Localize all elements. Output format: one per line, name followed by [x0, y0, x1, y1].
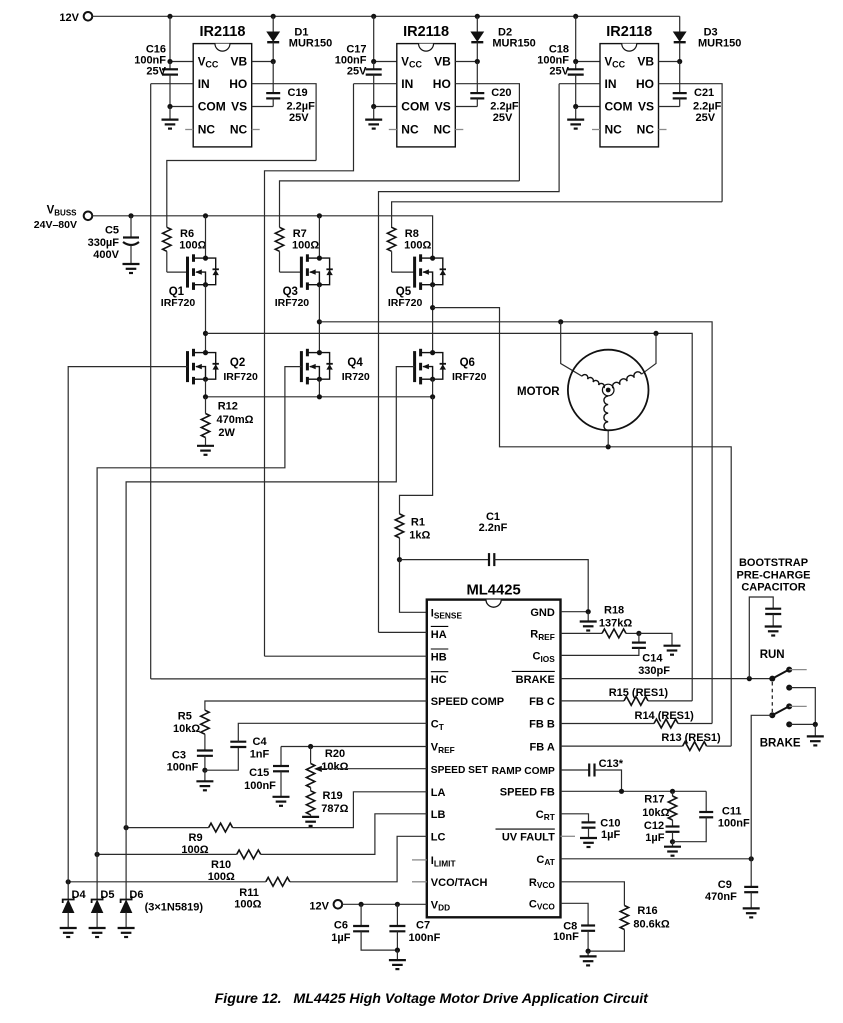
svg-text:FB C: FB C	[529, 696, 555, 708]
capacitor C16	[169, 62, 171, 70]
svg-text:C12: C12	[644, 820, 664, 832]
svg-text:NC: NC	[230, 123, 248, 137]
svg-text:1µF: 1µF	[645, 832, 664, 844]
node VCC junction C18	[573, 59, 578, 64]
svg-text:2W: 2W	[218, 427, 235, 439]
wire LA line	[233, 792, 427, 828]
svg-text:IR2118: IR2118	[403, 24, 449, 40]
svg-text:R5: R5	[178, 710, 192, 722]
svg-text:R15 (RES1): R15 (RES1)	[609, 687, 669, 699]
wire phase A to motor and FBC	[206, 333, 693, 701]
diode D2 MUR150	[476, 16, 478, 32]
node COM junction	[167, 104, 172, 109]
node motor phase C branch	[606, 444, 611, 449]
node phase C tap	[430, 305, 435, 310]
svg-text:25V: 25V	[347, 65, 367, 77]
diode D3 MUR150	[679, 16, 681, 32]
svg-text:2.2µF: 2.2µF	[287, 100, 316, 112]
ground R19	[302, 817, 319, 826]
wire VCC rail drop IC1	[169, 16, 171, 61]
svg-text:COM: COM	[198, 100, 226, 114]
svg-text:C6: C6	[334, 919, 348, 931]
wire Q1 drain	[205, 216, 207, 258]
wire IN input IC2	[354, 83, 397, 85]
node switch ground junction	[813, 722, 818, 727]
svg-text:IRF720: IRF720	[223, 371, 258, 383]
wire Q4 gate bus	[97, 367, 301, 855]
svg-text:VS: VS	[435, 100, 451, 114]
wire phase B column	[318, 285, 320, 353]
wire IN input IC3	[559, 83, 600, 85]
wire GND pin	[561, 611, 589, 613]
svg-text:10kΩ: 10kΩ	[173, 723, 200, 735]
wire COM stub IC1	[170, 106, 193, 108]
wire phase A column	[205, 285, 207, 353]
svg-text:MUR150: MUR150	[492, 37, 535, 49]
svg-text:IN: IN	[605, 77, 617, 91]
node VB junction	[475, 59, 480, 64]
IC U2 IR2118 gate driver	[397, 44, 456, 147]
ground C9	[743, 908, 760, 917]
wire SPEED SET wiper	[320, 768, 427, 770]
svg-text:VB: VB	[231, 55, 248, 69]
svg-text:VB: VB	[637, 55, 654, 69]
svg-text:R6: R6	[180, 228, 194, 240]
node VCC junction C16	[167, 59, 172, 64]
svg-text:VB: VB	[434, 55, 451, 69]
node phase A tap	[203, 331, 208, 336]
transistor Q1	[188, 254, 219, 290]
svg-text:IR2118: IR2118	[606, 24, 652, 40]
svg-text:C14: C14	[642, 652, 663, 664]
svg-text:C7: C7	[416, 919, 430, 931]
svg-text:25V: 25V	[549, 65, 569, 77]
svg-text:C13*: C13*	[599, 758, 624, 770]
wire VBUSS rail	[92, 216, 432, 258]
wire VCO/TACH stub	[412, 881, 427, 883]
ground C10	[580, 838, 597, 847]
capacitor C7 100nF	[396, 904, 398, 926]
svg-text:R12: R12	[218, 400, 238, 412]
node C13 junction	[619, 789, 624, 794]
svg-text:C9: C9	[718, 879, 732, 891]
svg-text:VS: VS	[638, 100, 654, 114]
wire run contact stub	[789, 669, 807, 671]
wire NC stubs IC1	[185, 129, 193, 131]
ground D4	[60, 928, 77, 937]
svg-text:100nF: 100nF	[244, 780, 276, 792]
svg-text:HA: HA	[431, 629, 447, 641]
wire source bus	[206, 396, 433, 398]
node GND junction	[586, 609, 591, 614]
wire contact4 to ground	[789, 723, 815, 725]
svg-text:HO: HO	[229, 77, 247, 91]
svg-text:R1: R1	[411, 516, 425, 528]
svg-text:25V: 25V	[289, 112, 309, 124]
wire UV FAULT stub	[561, 835, 576, 837]
node R20 top junction	[308, 744, 313, 749]
svg-text:C5: C5	[105, 225, 119, 237]
transistor Q6	[415, 349, 446, 385]
diode D4 1N5819	[67, 882, 69, 900]
svg-text:VS: VS	[231, 100, 247, 114]
svg-text:ML4425: ML4425	[466, 583, 520, 599]
resistor R15 RES1	[624, 697, 648, 706]
capacitor C20	[476, 62, 478, 94]
wire FB A line	[561, 745, 683, 747]
svg-text:RAMP COMP: RAMP COMP	[492, 766, 555, 777]
wire IC2 IN to HB bus	[265, 84, 354, 657]
svg-text:C3: C3	[172, 749, 186, 761]
node C7 junction	[395, 902, 400, 907]
svg-text:BRAKE: BRAKE	[760, 738, 801, 750]
wire phase C to motor and FBA	[433, 308, 732, 746]
svg-text:IR720: IR720	[342, 371, 370, 383]
svg-text:137kΩ: 137kΩ	[599, 617, 632, 629]
svg-text:470nF: 470nF	[705, 891, 737, 903]
node C6 junction	[359, 902, 364, 907]
wire COM stub IC3	[576, 106, 600, 108]
capacitor C5 bulk	[130, 216, 132, 238]
node VCC junction C17	[371, 59, 376, 64]
ground C7	[389, 950, 406, 969]
svg-text:FB A: FB A	[530, 741, 555, 753]
wire IC2 HO to R7	[280, 181, 520, 227]
wire IN input IC1	[151, 83, 194, 85]
wire ILIMIT stub	[412, 859, 427, 861]
wire NC stubs IC3	[592, 129, 600, 131]
svg-text:25V: 25V	[146, 65, 166, 77]
svg-text:2.2µF: 2.2µF	[693, 100, 722, 112]
wire contact2 to ground bus	[789, 688, 815, 725]
ground R12	[197, 446, 214, 455]
transistor Q3	[301, 254, 332, 290]
svg-text:SPEED SET: SPEED SET	[431, 765, 489, 776]
wire VREF line	[281, 746, 427, 748]
node Q6 source junction	[430, 394, 435, 399]
svg-text:MOTOR: MOTOR	[517, 386, 560, 398]
svg-text:R10: R10	[211, 859, 231, 871]
svg-text:2.2nF: 2.2nF	[479, 522, 508, 534]
svg-text:UV FAULT: UV FAULT	[502, 832, 555, 844]
svg-text:R11: R11	[239, 887, 259, 899]
resistor R14 RES1	[654, 719, 678, 728]
svg-text:100Ω: 100Ω	[404, 240, 431, 252]
wire IC3 IN to HA bus	[379, 84, 560, 633]
svg-text:RUN: RUN	[760, 649, 785, 661]
ground C17	[365, 107, 382, 129]
capacitor C9 470nF	[750, 859, 752, 887]
wire VCC rail drop IC3	[575, 16, 577, 61]
node rail junction	[271, 14, 276, 19]
svg-text:C11: C11	[722, 805, 742, 817]
svg-text:NC: NC	[605, 123, 623, 137]
wire BRAKE line	[561, 678, 773, 680]
node rail junction	[475, 14, 480, 19]
svg-text:MUR150: MUR150	[289, 37, 332, 49]
node C5 junction	[128, 213, 133, 218]
wire source bus to R1	[400, 397, 433, 514]
svg-text:100nF: 100nF	[167, 761, 199, 773]
wire brake contact stub	[789, 705, 807, 707]
capacitor C19	[272, 62, 274, 94]
node Q2 source junction	[203, 394, 208, 399]
wire VCC rail drop IC2	[373, 16, 375, 61]
svg-text:MUR150: MUR150	[698, 37, 741, 49]
resistor R9 100ohm	[209, 823, 233, 832]
node D5 R10 junction	[95, 852, 100, 857]
ground C12	[664, 842, 681, 856]
node D4 R11 junction	[66, 879, 71, 884]
node C3 C4 junction	[202, 768, 207, 773]
node COM junction	[573, 104, 578, 109]
svg-text:IN: IN	[401, 77, 413, 91]
svg-text:BRAKE: BRAKE	[516, 674, 555, 686]
svg-text:IRF720: IRF720	[275, 297, 310, 309]
wire R8 to Q5 gate	[392, 271, 415, 273]
node switch pole 2	[769, 712, 775, 718]
wire HO output IC1	[252, 84, 316, 161]
resistor R16 80.6k	[561, 882, 625, 906]
ground C8	[580, 951, 597, 965]
svg-text:(3×1N5819): (3×1N5819)	[145, 901, 204, 913]
svg-text:80.6kΩ: 80.6kΩ	[633, 918, 670, 930]
svg-text:LC: LC	[431, 832, 446, 844]
capacitor C4 1nF	[205, 747, 238, 770]
svg-text:R14 (RES1): R14 (RES1)	[635, 710, 695, 722]
wire VB stub IC3	[659, 61, 680, 63]
wire Q6 source	[432, 379, 434, 397]
capacitor C14 330pF	[638, 633, 640, 642]
wire CAT line	[561, 858, 752, 860]
ground C15	[273, 797, 290, 806]
node C6 C7 ground junction	[395, 948, 400, 953]
resistor R6 100ohm	[163, 227, 171, 251]
node VB junction	[677, 59, 682, 64]
svg-text:IN: IN	[198, 77, 210, 91]
svg-text:FB B: FB B	[529, 719, 555, 731]
svg-text:C10: C10	[600, 817, 620, 829]
capacitor C13 ramp	[561, 769, 590, 771]
svg-text:330pF: 330pF	[638, 665, 670, 677]
node VB junction	[271, 59, 276, 64]
ground D6	[118, 928, 135, 937]
node switch contact 4	[786, 721, 792, 727]
node C12 C11 junction	[670, 839, 675, 844]
svg-text:HC: HC	[431, 674, 447, 686]
resistor R1 1k	[395, 514, 403, 538]
ground bootstrap	[765, 627, 782, 636]
svg-text:10nF: 10nF	[553, 931, 579, 943]
resistor R8 100ohm	[387, 227, 395, 251]
svg-text:Q2: Q2	[230, 357, 245, 369]
svg-text:R19: R19	[323, 790, 343, 802]
svg-text:R9: R9	[189, 832, 203, 844]
svg-text:12V: 12V	[309, 900, 329, 912]
svg-text:330µF: 330µF	[88, 237, 120, 249]
svg-text:R16: R16	[637, 905, 657, 917]
svg-text:10kΩ: 10kΩ	[321, 761, 348, 773]
svg-text:VCO/TACH: VCO/TACH	[431, 877, 488, 889]
svg-text:NC: NC	[401, 123, 419, 137]
svg-text:BOOTSTRAP: BOOTSTRAP	[739, 557, 808, 569]
svg-text:NC: NC	[198, 123, 216, 137]
svg-text:100nF: 100nF	[718, 818, 750, 830]
ground C16	[162, 107, 179, 129]
node R1 ISENSE junction	[397, 557, 402, 562]
svg-text:1µF: 1µF	[331, 932, 350, 944]
svg-text:COM: COM	[401, 100, 429, 114]
wire COM stub IC2	[374, 106, 397, 108]
node C9 junction	[749, 856, 754, 861]
svg-text:HB: HB	[431, 651, 447, 663]
capacitor C10 1uF	[561, 814, 589, 823]
svg-text:1kΩ: 1kΩ	[409, 529, 430, 541]
node switch contact run	[786, 667, 792, 673]
svg-text:R7: R7	[293, 228, 307, 240]
svg-text:100Ω: 100Ω	[179, 240, 206, 252]
svg-text:R13 (RES1): R13 (RES1)	[661, 732, 721, 744]
svg-text:LB: LB	[431, 809, 446, 821]
wire VDD supply	[342, 903, 427, 905]
ground switch	[807, 724, 824, 745]
svg-text:24V–80V: 24V–80V	[34, 219, 77, 231]
wire Q6 gate bus	[126, 367, 415, 828]
ground C3	[196, 770, 213, 790]
svg-text:R20: R20	[325, 748, 345, 760]
resistor R17 10k	[672, 791, 674, 796]
wire Q4 source	[318, 379, 320, 397]
node R17 junction	[670, 789, 675, 794]
IC U1 IR2118 gate driver	[193, 44, 252, 147]
resistor R12 sense	[205, 397, 207, 414]
wire LC line	[290, 836, 427, 882]
IC U3 IR2118 gate driver	[600, 44, 659, 147]
capacitor C21	[679, 62, 681, 94]
node 12V supply terminal	[84, 12, 93, 21]
resistor R11 100ohm	[266, 877, 290, 886]
svg-text:GND: GND	[530, 607, 555, 619]
resistor R7 100ohm	[275, 227, 283, 251]
node phase B tap	[317, 319, 322, 324]
node switch contact 2	[786, 685, 792, 691]
node rail junction	[167, 14, 172, 19]
svg-text:COM: COM	[605, 100, 633, 114]
node VBUSS terminal	[84, 212, 93, 221]
capacitor C18	[575, 62, 577, 70]
svg-text:C15: C15	[249, 767, 269, 779]
svg-text:2.2µF: 2.2µF	[490, 100, 519, 112]
wire VB stub IC1	[252, 61, 274, 63]
svg-text:Figure 12. ML4425 High Volta: Figure 12. ML4425 High Voltage Motor Dri…	[215, 991, 650, 1007]
wire pole2 to CAT	[751, 715, 772, 859]
wire 12V top rail	[92, 15, 679, 17]
wire HO output IC3	[659, 84, 723, 202]
ground C5	[123, 264, 140, 273]
wire phase C column	[432, 285, 434, 353]
node COM junction	[371, 104, 376, 109]
resistor R5 10k	[201, 710, 209, 734]
wire VB stub IC2	[455, 61, 477, 63]
svg-text:25V: 25V	[696, 112, 716, 124]
node R18 C14 junction	[636, 631, 641, 636]
node D6 R9 junction	[124, 825, 129, 830]
svg-text:100nF: 100nF	[409, 932, 441, 944]
wire Q3 drain	[318, 216, 320, 258]
svg-text:C19: C19	[288, 87, 308, 99]
capacitor bootstrap pre-charge	[749, 597, 773, 679]
svg-text:Q4: Q4	[347, 357, 363, 369]
svg-text:IRF720: IRF720	[388, 297, 423, 309]
capacitor C1 2.2nF	[400, 559, 490, 561]
svg-text:HO: HO	[636, 77, 654, 91]
transistor Q2	[188, 349, 219, 385]
capacitor C15 100nF	[280, 747, 282, 767]
resistor R13 RES1	[683, 742, 707, 751]
ground GND pin	[580, 612, 597, 631]
capacitor C11 100nF	[705, 791, 707, 812]
ground R18	[664, 646, 681, 655]
diode D5 1N5819	[96, 854, 98, 899]
wire HB stub	[265, 655, 427, 657]
svg-text:R17: R17	[644, 794, 664, 806]
node rail junction	[371, 14, 376, 19]
wire IC1 HO to R6	[167, 161, 316, 228]
svg-text:C4: C4	[253, 736, 268, 748]
wire gang link dashed	[771, 682, 773, 712]
resistor R10 100ohm	[237, 850, 261, 859]
wire SPEED COMP to R5	[205, 701, 427, 710]
capacitor C8 10nF	[561, 903, 589, 925]
svg-text:10kΩ: 10kΩ	[642, 807, 669, 819]
svg-text:NC: NC	[637, 123, 655, 137]
wire phase B to motor and FBB	[319, 322, 712, 724]
svg-text:SPEED FB: SPEED FB	[500, 787, 555, 799]
svg-text:C20: C20	[491, 87, 511, 99]
wire IC3 HO to R8	[392, 202, 722, 228]
svg-text:HO: HO	[433, 77, 451, 91]
svg-text:R18: R18	[604, 605, 624, 617]
motor winding leads	[561, 322, 582, 376]
svg-text:400V: 400V	[93, 249, 119, 261]
svg-text:IR2118: IR2118	[199, 24, 245, 40]
node 12V VDD terminal	[334, 900, 343, 909]
diode D1 MUR150	[272, 16, 274, 32]
wire R6 to Q1 gate	[167, 271, 188, 273]
node switch pole 1	[769, 676, 775, 682]
svg-text:25V: 25V	[493, 112, 513, 124]
svg-text:LA: LA	[431, 787, 446, 799]
node rail junction	[573, 14, 578, 19]
wire R7 to Q3 gate	[280, 271, 302, 273]
svg-text:D4: D4	[72, 889, 87, 901]
IC U4 ML4425 motor controller	[427, 600, 561, 918]
svg-text:Q6: Q6	[460, 357, 475, 369]
node Q4 source junction	[317, 394, 322, 399]
node bootstrap junction	[747, 676, 752, 681]
svg-text:D6: D6	[129, 889, 143, 901]
wire IC1 IN to HC bus	[150, 84, 152, 679]
svg-text:R8: R8	[405, 228, 419, 240]
wire HO output IC2	[455, 84, 519, 181]
node Q3 drain junction	[317, 213, 322, 218]
node motor phase A branch	[653, 331, 658, 336]
ground D5	[89, 928, 106, 937]
wire SPEED FB line	[561, 790, 707, 792]
svg-text:CAPACITOR: CAPACITOR	[741, 581, 805, 593]
node Q1 drain junction	[203, 213, 208, 218]
svg-text:NC: NC	[433, 123, 451, 137]
